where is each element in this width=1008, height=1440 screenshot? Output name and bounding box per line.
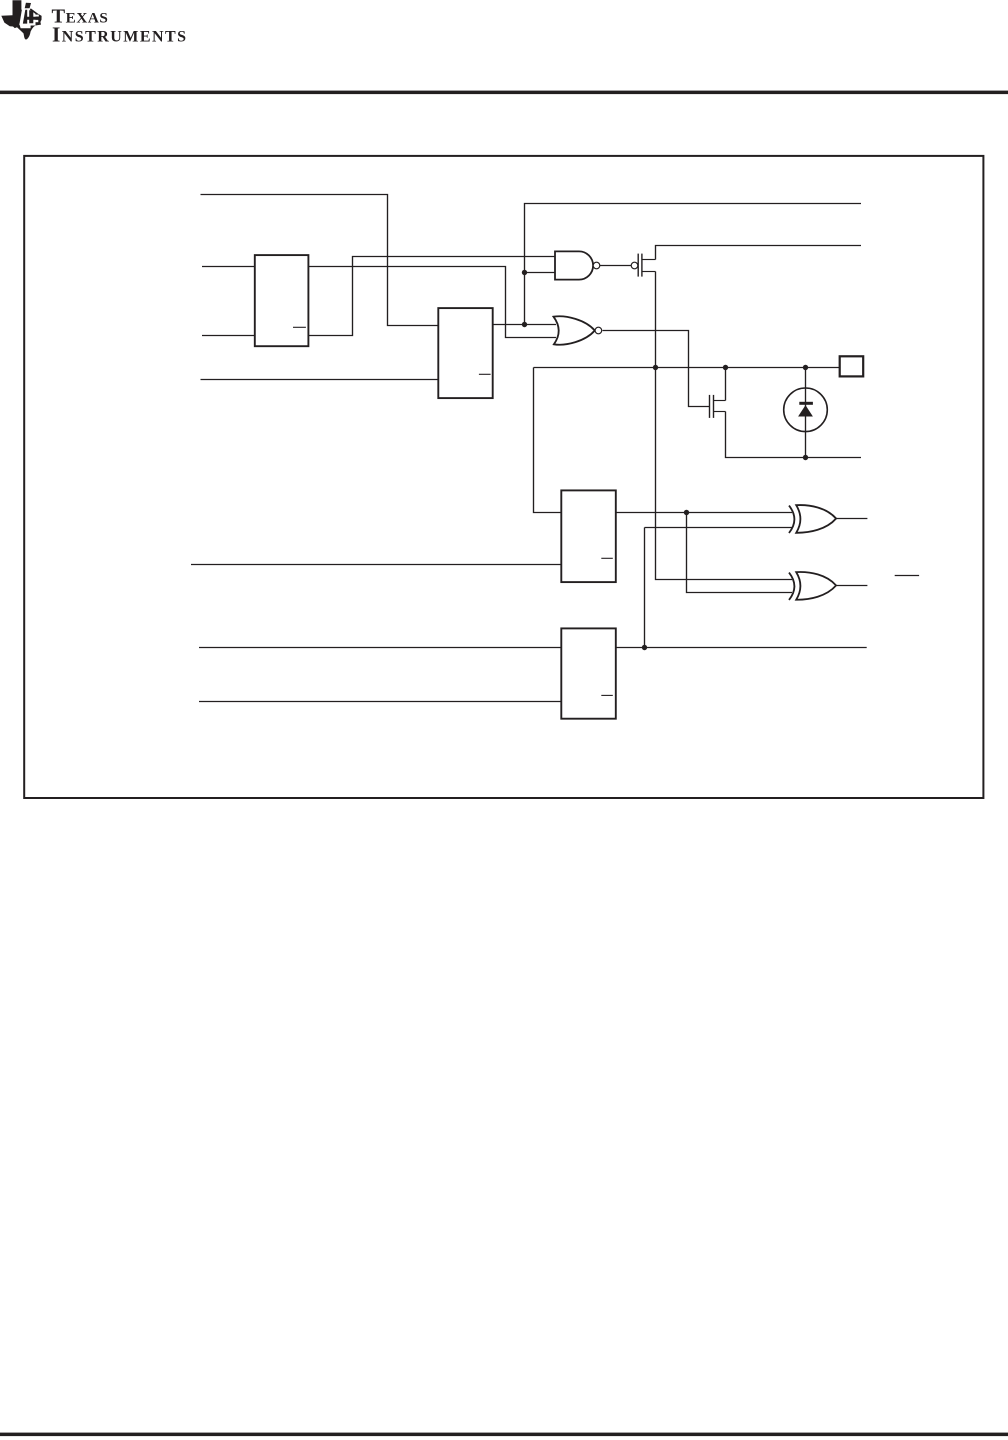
- wire: PMOS upper terminal to right rail: [656, 246, 862, 260]
- wire: pad net horizontal: [534, 367, 840, 369]
- white pocket around t: [27, 10, 35, 26]
- node: NAND lower input junction: [522, 270, 527, 275]
- wire: input to block U4 upper: [199, 647, 562, 649]
- wire: lone overline dash: [895, 575, 919, 577]
- wire: NAND output to PMOS gate: [600, 265, 631, 267]
- NMOS transistor Q2: [710, 395, 726, 418]
- node: NOR upper input junction: [522, 322, 527, 327]
- wire: NOR output to NMOS gate: [603, 331, 710, 407]
- block U3: [561, 490, 616, 582]
- white i foot carve: [19, 24, 30, 29]
- wire: NAND lower input stub: [525, 272, 556, 274]
- diode cathode bar: [799, 402, 813, 405]
- TI logo bug (Texas map with ti): [1, 0, 41, 39]
- wire: input to block U4 lower: [199, 701, 562, 703]
- node: PMOS drain / pad net junction: [653, 365, 658, 370]
- wire: top-left input to block U2 upper input: [201, 195, 439, 326]
- PMOS transistor Q1: [631, 254, 655, 277]
- wire: vertical from XOR1 lower input to U4 output line: [644, 528, 646, 648]
- wire: XOR1 output: [837, 518, 868, 520]
- figure frame: [24, 156, 983, 798]
- output pad square: [840, 356, 864, 376]
- wire: block U1 lower output to NAND upper input: [308, 257, 555, 336]
- node: current source bottom junction: [803, 455, 808, 460]
- wire: block U1 upper output to NOR lower input: [308, 267, 556, 338]
- wire: NMOS source down to lower rail: [726, 412, 862, 458]
- white strip above t arm: [36, 15, 39, 17]
- diode triangle: [798, 405, 813, 416]
- wire: input to block U2 lower: [201, 379, 439, 381]
- wire: branch down to XOR2 lower input: [687, 513, 793, 593]
- white notch below t arm: [36, 20, 39, 22]
- node: current source top junction: [803, 365, 808, 370]
- node: block U4 output junction: [642, 645, 647, 650]
- NAND gate: [555, 251, 600, 279]
- junction dots: [522, 270, 808, 650]
- wire: input to block U1 lower: [202, 335, 255, 337]
- black i dot: [25, 3, 31, 9]
- wire: PMOS lower terminal down to XOR2 upper input: [656, 272, 793, 580]
- black Texas silhouette: [1, 0, 41, 39]
- bottom rule: [0, 1433, 1008, 1437]
- block U2: [438, 308, 492, 398]
- wire: upper-right net with vertical riser: [525, 204, 862, 325]
- wordmark TEXAS INSTRUMENTS: [52, 6, 188, 47]
- wire: current source vertical: [805, 368, 807, 458]
- wire: XOR1 lower input branch from block U4 output: [645, 527, 793, 529]
- node: NMOS drain / pad net junction: [723, 365, 728, 370]
- white i slash carve: [19, 3, 26, 26]
- wire: XOR2 output: [837, 585, 868, 587]
- XOR gate X2: [789, 572, 836, 600]
- wire: block U3 output to XOR1 upper input: [616, 512, 792, 514]
- top rule: [0, 91, 1008, 95]
- current source D1 circle: [784, 388, 828, 432]
- wire: pad net down to block U3 upper input: [534, 368, 562, 513]
- block U1: [255, 255, 309, 346]
- wire: input to block U3 lower: [191, 564, 562, 566]
- wire: NMOS drain riser: [725, 368, 727, 401]
- block U4: [561, 628, 616, 718]
- black t: [26, 10, 42, 23]
- node: block U3 output junction: [684, 510, 689, 515]
- wire: input to block U1 upper: [202, 266, 255, 268]
- wire: block U2 output to NOR upper input: [493, 324, 556, 326]
- XOR gate X1: [789, 505, 836, 533]
- NOR gate: [554, 316, 602, 344]
- wire: block U4 output to right: [616, 647, 867, 649]
